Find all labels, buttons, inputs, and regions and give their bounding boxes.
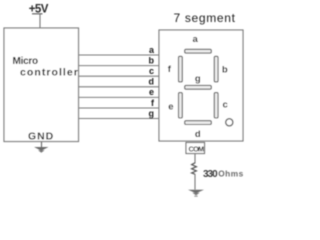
svg-text:d: d	[149, 77, 155, 87]
svg-text:a: a	[193, 34, 199, 45]
svg-text:c: c	[223, 99, 228, 110]
svg-text:e: e	[149, 87, 154, 97]
svg-text:7 segment: 7 segment	[174, 11, 236, 25]
svg-text:330: 330	[203, 169, 218, 180]
svg-text:d: d	[195, 129, 201, 140]
svg-text:g: g	[195, 74, 201, 85]
svg-text:Ohms: Ohms	[218, 169, 244, 179]
svg-text:GND: GND	[28, 131, 54, 143]
svg-text:e: e	[168, 101, 173, 112]
svg-text:controller: controller	[20, 67, 79, 79]
svg-text:a: a	[149, 45, 155, 55]
svg-text:f: f	[151, 98, 155, 108]
svg-text:b: b	[149, 55, 155, 65]
svg-text:b: b	[222, 65, 228, 76]
svg-text:Micro: Micro	[13, 56, 39, 67]
svg-text:COM: COM	[189, 145, 205, 154]
svg-text:c: c	[149, 66, 154, 76]
svg-text:g: g	[149, 108, 155, 118]
